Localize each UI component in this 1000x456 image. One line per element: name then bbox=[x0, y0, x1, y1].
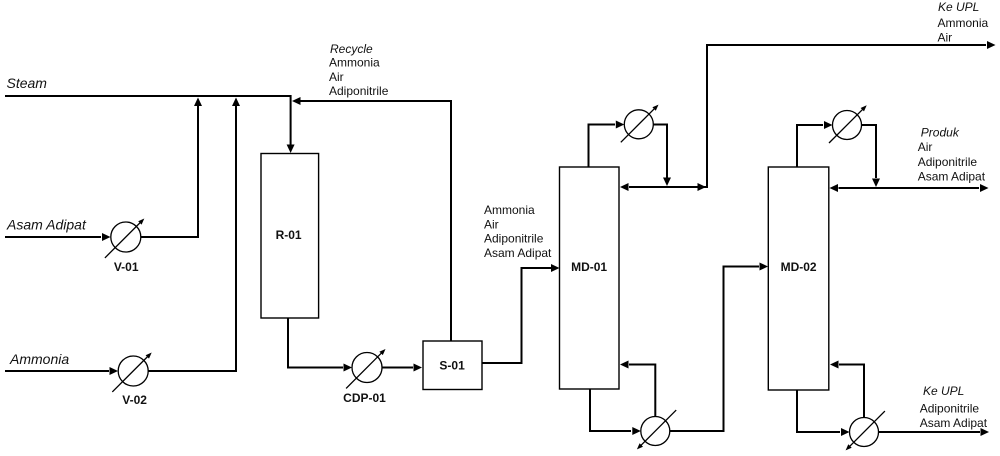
svg-text:Steam: Steam bbox=[7, 75, 48, 91]
svg-text:Adiponitrile: Adiponitrile bbox=[920, 401, 980, 415]
svg-text:Ammonia: Ammonia bbox=[329, 56, 380, 70]
svg-text:R-01: R-01 bbox=[276, 228, 302, 242]
svg-text:Asam Adipat: Asam Adipat bbox=[484, 246, 552, 260]
svg-text:Produk: Produk bbox=[921, 126, 960, 140]
svg-text:S-01: S-01 bbox=[439, 359, 465, 373]
svg-text:Air: Air bbox=[938, 31, 953, 45]
svg-text:Asam Adipat: Asam Adipat bbox=[6, 216, 87, 232]
svg-text:Ammonia: Ammonia bbox=[938, 16, 989, 30]
svg-text:Air: Air bbox=[329, 70, 344, 84]
svg-text:Adiponitrile: Adiponitrile bbox=[918, 155, 978, 169]
svg-text:Air: Air bbox=[484, 217, 499, 231]
svg-text:V-02: V-02 bbox=[122, 393, 147, 407]
svg-text:Asam Adipat: Asam Adipat bbox=[920, 416, 988, 430]
svg-text:MD-02: MD-02 bbox=[781, 260, 817, 274]
svg-text:Ke UPL: Ke UPL bbox=[938, 0, 979, 14]
svg-text:MD-01: MD-01 bbox=[571, 260, 607, 274]
svg-text:Ke UPL: Ke UPL bbox=[923, 384, 964, 398]
svg-text:Adiponitrile: Adiponitrile bbox=[484, 232, 544, 246]
svg-text:V-01: V-01 bbox=[114, 260, 139, 274]
svg-text:CDP-01: CDP-01 bbox=[343, 391, 386, 405]
svg-text:Ammonia: Ammonia bbox=[9, 351, 69, 367]
svg-text:Air: Air bbox=[918, 140, 933, 154]
svg-text:Adiponitrile: Adiponitrile bbox=[329, 84, 389, 98]
svg-text:Recycle: Recycle bbox=[330, 42, 373, 56]
svg-text:Asam Adipat: Asam Adipat bbox=[918, 169, 986, 183]
svg-text:Ammonia: Ammonia bbox=[484, 203, 535, 217]
